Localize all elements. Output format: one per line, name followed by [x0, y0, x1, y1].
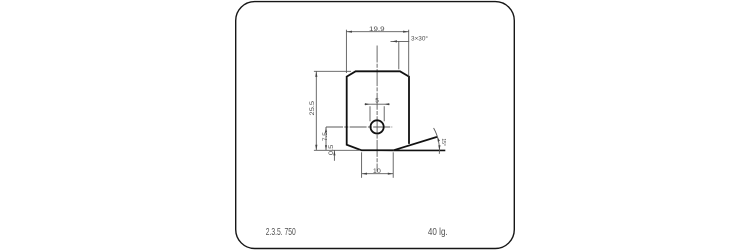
title text 40 lg	[428, 226, 448, 238]
label 7.5	[322, 132, 329, 141]
label 19.9	[369, 26, 385, 33]
svg-text:40 lg.: 40 lg.	[428, 226, 448, 238]
svg-text:19.9: 19.9	[369, 26, 385, 33]
dimension 5 line	[365, 103, 390, 105]
baseline extension	[393, 149, 445, 151]
angle arc	[434, 128, 441, 154]
label 25.5	[309, 100, 316, 115]
title text 235 750	[266, 226, 296, 238]
hole	[371, 120, 384, 133]
dimension 25.5 extension lines	[314, 71, 361, 150]
svg-text:0.5: 0.5	[328, 144, 335, 155]
dimension 7.5 line	[325, 127, 327, 150]
label 5	[375, 98, 379, 105]
label 3x30	[411, 35, 428, 43]
label 15 deg	[440, 138, 446, 146]
dimension 25.5 line	[315, 71, 317, 150]
part outline	[347, 71, 409, 150]
dimension 19.9 line	[346, 31, 408, 33]
cutting edge slant	[393, 137, 437, 150]
svg-text:25.5: 25.5	[309, 100, 316, 115]
svg-text:7.5: 7.5	[322, 132, 329, 141]
dimension 5 extension lines	[370, 106, 384, 121]
dimension 19.9 extension lines	[346, 30, 408, 77]
svg-text:3×30°: 3×30°	[411, 35, 428, 43]
svg-text:10: 10	[373, 168, 381, 175]
dimension 10 extension lines	[362, 152, 394, 178]
label 10	[373, 168, 381, 175]
horizontal centerline	[326, 126, 392, 128]
svg-text:2.3.5. 750: 2.3.5. 750	[266, 226, 296, 238]
svg-text:15°: 15°	[440, 138, 446, 146]
vertical centerline	[376, 46, 378, 172]
svg-text:5: 5	[375, 98, 379, 105]
label 0.5	[328, 144, 335, 155]
chamfer leader 3x30	[391, 40, 410, 69]
dimension 0.5 line	[333, 150, 335, 161]
dimension 10 line	[362, 173, 394, 175]
card border	[236, 2, 515, 249]
